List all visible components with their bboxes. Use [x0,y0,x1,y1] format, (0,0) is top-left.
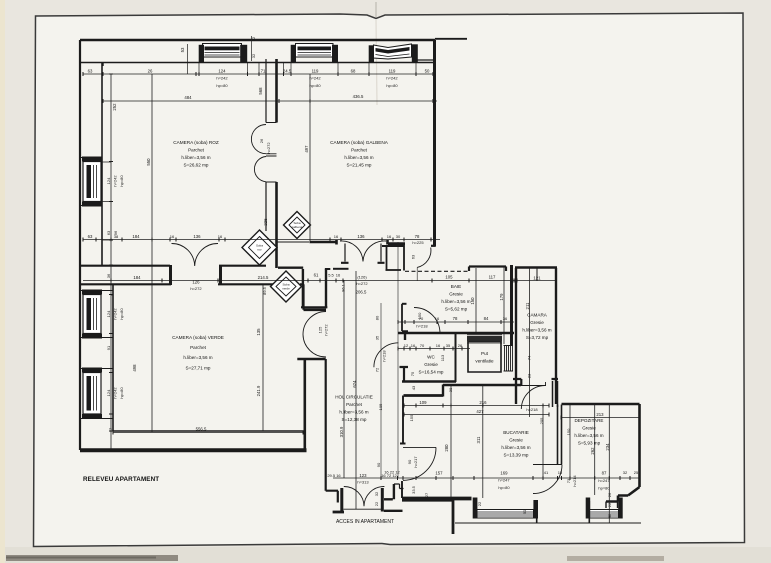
svg-text:Parchet: Parchet [190,345,207,350]
wall step hol arm west [333,268,349,270]
svg-text:S=16,54 mp: S=16,54 mp [419,370,444,375]
svg-text:96.1: 96.1 [341,283,346,292]
vertical extension x111 left [110,74,112,450]
dim line 556.5 y432 [113,432,303,434]
vertical extension x152 [151,74,153,432]
svg-text:436.5: 436.5 [353,94,364,99]
svg-text:h=218: h=218 [526,407,538,412]
svg-text:CAMERA (soba) ROZ: CAMERA (soba) ROZ [173,140,219,145]
svg-text:h=272: h=272 [266,142,271,154]
svg-text:CAMERA (soba) VERDE: CAMERA (soba) VERDE [172,335,224,340]
svg-text:27: 27 [424,492,429,497]
door double GALBENA-HOL [340,241,386,262]
svg-text:h=217: h=217 [413,456,418,468]
svg-text:262: 262 [590,447,595,455]
svg-text:241.9: 241.9 [256,385,261,396]
svg-text:h.liber=3,56 m: h.liber=3,56 m [344,155,373,160]
vertical extension x263 verde [262,285,264,431]
svg-text:26: 26 [458,343,463,348]
door BUCATARIE-DEPOZITARE [533,465,562,494]
svg-text:h=272: h=272 [324,324,329,336]
soba roz diamond [242,230,277,265]
svg-text:35: 35 [446,343,451,348]
shaft hatch between put and camara [504,346,514,372]
svg-text:63: 63 [88,234,93,239]
svg-text:234: 234 [605,443,610,451]
svg-text:5.5: 5.5 [328,273,334,278]
vertical extension x609 [608,404,610,523]
wall left inner face ROZ [101,63,103,266]
svg-text:25: 25 [634,470,639,475]
svg-text:h=242: h=242 [113,175,118,187]
svg-text:S=5,93 mp: S=5,93 mp [578,441,601,446]
window T3 (fold distorted) [369,44,418,63]
svg-text:S=5,62 mp: S=5,62 mp [445,307,468,312]
svg-text:50: 50 [425,69,430,74]
svg-text:h.liber=3,56 m: h.liber=3,56 m [574,433,603,438]
svg-text:16: 16 [170,234,175,239]
svg-text:184: 184 [132,234,140,239]
svg-text:78: 78 [415,234,420,239]
svg-text:h.liber=3,56 m: h.liber=3,56 m [501,445,530,450]
svg-text:30: 30 [448,387,453,392]
svg-text:550: 550 [146,158,151,166]
svg-text:S=26,62 mp: S=26,62 mp [184,163,209,168]
svg-text:124: 124 [106,310,111,317]
wall soba verde niche bottom [301,306,327,308]
dim chain bottom y478 [333,477,640,479]
wall corridor top [402,498,452,501]
svg-text:280: 280 [444,444,449,452]
wall entrance left [333,511,344,514]
svg-text:Put: Put [481,351,489,356]
svg-text:150: 150 [417,312,422,319]
wall top inner face [103,62,433,64]
svg-text:h.liber=3,56 m: h.liber=3,56 m [183,355,212,360]
door CAMARA-BUCATARIE arc [521,382,546,409]
svg-text:105: 105 [445,275,453,280]
svg-text:78: 78 [453,316,458,321]
svg-text:47: 47 [108,427,113,432]
vertical extension x529 camara 211 [529,268,531,417]
svg-text:119: 119 [312,69,319,74]
door HOL-WC arc [374,343,399,368]
svg-text:205: 205 [539,417,544,424]
wall HOL left bottom elbow [326,491,338,503]
wall soba verde niche right [325,269,327,308]
svg-text:ventilatie: ventilatie [475,359,494,364]
vertical extension x381 hol right dims [380,303,382,478]
svg-text:310.9: 310.9 [339,426,344,437]
svg-text:h.liber=3,56 m: h.liber=3,56 m [181,155,210,160]
svg-text:35: 35 [375,335,380,340]
corridor east post walls [606,502,618,509]
put ventilatie label [475,351,494,364]
door jambs VERDE-HOL [297,310,326,359]
svg-text:74: 74 [527,355,532,360]
svg-text:206.5: 206.5 [356,290,367,295]
svg-text:119: 119 [389,69,396,74]
svg-text:211: 211 [525,302,530,309]
svg-text:Parchet: Parchet [188,148,205,153]
svg-text:h.liber=3,56 m: h.liber=3,56 m [522,328,551,333]
svg-text:226: 226 [263,218,268,226]
extension lines left wall windows [102,162,113,414]
wall BAIE north solid raised [469,267,506,272]
svg-text:h=242: h=242 [309,76,321,81]
svg-text:16: 16 [387,234,392,239]
svg-text:h=225: h=225 [412,240,424,245]
room CAMERA VERDE [172,335,224,371]
wall WC south [402,380,456,382]
svg-text:Gresie: Gresie [449,292,463,297]
door BAIE north arc [417,248,431,268]
door jambs GALBENA-HOL posts [337,240,388,245]
tick marks top chain [83,72,640,480]
svg-text:16: 16 [435,316,440,321]
svg-text:hp=80: hp=80 [309,83,321,88]
svg-text:12: 12 [404,343,409,348]
wall soba verde niche cap [325,268,330,270]
room DEPOZITARE [574,418,603,446]
svg-text:hp=80: hp=80 [216,83,228,88]
svg-text:556.5: 556.5 [196,427,207,432]
dim line kitchen y405 [404,405,549,407]
svg-text:h=242: h=242 [113,387,118,399]
svg-text:Parchet: Parchet [351,148,368,153]
svg-text:90: 90 [522,509,527,514]
door double VERDE-HOL [303,312,326,358]
svg-text:RELEVEU APARTAMENT: RELEVEU APARTAMENT [83,476,159,483]
svg-text:verde: verde [282,287,290,291]
svg-text:126: 126 [192,280,200,285]
svg-text:216: 216 [479,400,487,405]
svg-text:h=214: h=214 [572,475,577,487]
svg-text:26: 26 [259,138,264,143]
wall niche right [403,246,405,271]
svg-text:61: 61 [314,273,319,278]
svg-text:26: 26 [148,69,153,74]
svg-text:63: 63 [106,230,111,235]
window T2 [291,44,338,63]
svg-text:Gresie: Gresie [509,438,523,443]
svg-text:117: 117 [489,275,496,280]
svg-text:150: 150 [566,428,571,435]
dim line wc y348 [398,348,470,350]
steps notch right of entrance [394,484,404,489]
svg-text:15: 15 [558,470,563,475]
svg-text:h=247: h=247 [598,478,610,483]
svg-text:WC: WC [427,355,435,360]
svg-text:hp=80: hp=80 [119,175,124,187]
window T1 [199,44,248,63]
svg-text:157: 157 [435,471,443,476]
wall GALBENA bottom [310,241,337,244]
vertical extension x543 kitchen 205 [542,404,544,478]
svg-text:30: 30 [396,234,401,239]
wall soba verde niche left [302,269,304,308]
svg-text:123: 123 [359,473,367,478]
svg-text:136: 136 [193,234,201,239]
svg-text:hp=80: hp=80 [386,83,398,88]
svg-text:(126): (126) [357,275,367,280]
svg-text:87: 87 [602,471,607,476]
wall BAIE north dashed [405,270,469,272]
svg-text:89.5: 89.5 [262,286,267,295]
vertical extension x482 kitchen 311 [482,385,484,498]
svg-text:HOL CIRCULATIE: HOL CIRCULATIE [335,395,373,400]
svg-text:124: 124 [218,69,226,74]
svg-text:BUCATARIE: BUCATARIE [503,430,529,435]
wall soba galbena base [278,267,303,269]
wall kitchen NE column [553,381,558,407]
corridor middle pier [537,501,590,523]
svg-text:155: 155 [409,414,414,421]
room CAMARA [522,313,551,341]
svg-text:ACCES IN APARTAMENT: ACCES IN APARTAMENT [336,519,394,525]
svg-text:70: 70 [420,343,425,348]
svg-text:179: 179 [499,293,504,301]
svg-text:24.5: 24.5 [283,69,292,74]
scanner smudge bottom left [6,555,178,561]
small dim pier T1-T2 [251,36,253,61]
vertical extension x594 [594,404,596,495]
room CAMERA GALBENA [330,140,389,168]
svg-text:32: 32 [374,491,379,496]
svg-text:33.5: 33.5 [411,485,416,494]
wall left inner face VERDE [112,285,114,432]
wall VERDE right inner below door [303,359,306,450]
dim chain y279 [83,280,557,282]
svg-text:484: 484 [184,95,192,100]
svg-text:38: 38 [114,234,119,239]
window L1 [82,157,102,207]
svg-text:hp=80: hp=80 [119,387,124,399]
wall BAIE west [401,304,403,331]
svg-text:213: 213 [596,412,604,417]
wall WC east [455,333,457,382]
svg-text:h=218: h=218 [416,324,428,329]
dim line 484/436.5 y101 [103,100,437,102]
wall VERDE right inner above door [302,284,304,310]
scanner smudge bottom right [567,556,664,561]
svg-text:S=21,45 mp: S=21,45 mp [347,163,372,168]
svg-text:80: 80 [375,315,380,320]
svg-text:h=272: h=272 [356,281,368,286]
wall ROZ/GALBENA door jambs [266,123,277,183]
svg-text:Gresie: Gresie [424,362,438,367]
wall kitchen north low [404,394,444,397]
svg-text:CAMARA: CAMARA [527,313,548,318]
svg-text:23: 23 [527,373,532,378]
svg-text:75: 75 [410,371,415,376]
svg-text:S=13,39 mp: S=13,39 mp [504,453,529,458]
door leaves GALBENA-HOL [345,244,381,262]
wall kitchen/depozitare shared [558,405,562,465]
svg-text:32: 32 [251,53,256,58]
fold mark top [375,2,377,17]
svg-text:16 72 12: 16 72 12 [381,473,397,478]
door leaf caps [341,262,385,264]
svg-text:73: 73 [566,478,571,483]
wall kitchen south [402,497,472,501]
svg-text:68: 68 [351,69,356,74]
wall niche below GALBENA [277,241,309,243]
wall ROZ bottom top-face [81,265,267,267]
svg-text:90: 90 [407,459,412,464]
svg-text:214.5: 214.5 [258,275,269,280]
svg-text:36: 36 [503,316,508,321]
put ventilatie shaft box [468,342,501,373]
wall kitchen west [400,396,406,499]
vertical extension x570 [569,404,571,478]
svg-text:Parchet: Parchet [346,402,363,407]
svg-text:41: 41 [544,470,549,475]
svg-text:84: 84 [484,316,489,321]
wall left exterior [79,40,81,450]
corridor bottom outer line [455,522,641,524]
svg-text:136: 136 [357,234,365,239]
wall bottom exterior VERDE [80,448,307,452]
svg-text:hp=80: hp=80 [598,486,610,491]
dim line kitchen 427 y414 [404,414,549,416]
svg-text:497: 497 [304,145,309,153]
wall BAIE west upper cap [402,303,407,305]
wall step at T3 right jamb [415,52,434,60]
dim line baie y322 [398,321,514,323]
door post galbena right [431,245,436,247]
svg-text:121: 121 [533,276,541,281]
svg-text:29.5 16: 29.5 16 [327,473,341,478]
svg-text:16: 16 [218,234,223,239]
svg-text:CAMERA (soba) GALBENA: CAMERA (soba) GALBENA [330,140,389,145]
svg-text:91: 91 [106,345,111,350]
wall niche bottom [386,269,402,271]
door sill entrance [343,508,382,510]
vertical extension x427 hol right col [397,242,399,478]
svg-text:105: 105 [378,403,383,410]
svg-text:h=242: h=242 [386,76,398,81]
svg-text:16: 16 [411,343,416,348]
wall WC west cap [400,367,409,382]
put ventilatie hatch band [467,336,502,342]
dim chain top y74 [83,73,434,75]
wall CAMARA outline [515,268,557,405]
vertical extension x504 baie 179 [503,266,505,344]
wall stub beyond GALBENA corner [435,38,467,40]
svg-text:16: 16 [336,273,341,278]
wall HOL left face [325,359,327,491]
wall BAIE east [510,265,513,345]
extension below arc [416,267,418,281]
svg-text:169: 169 [500,471,508,476]
svg-text:h.liber=3,56 m: h.liber=3,56 m [441,299,470,304]
dim chain mid y239 [83,239,440,241]
soba verde diamond [271,271,302,302]
wall top-left corner join [80,40,103,66]
svg-text:hp=80: hp=80 [498,485,510,490]
door double entrance [344,486,385,506]
wall BAIE south / WC north [398,332,514,334]
svg-text:624: 624 [352,380,357,388]
svg-text:h=313: h=313 [357,480,369,485]
dim line depozitare 213 y417 [561,417,640,419]
svg-text:S=27,71 mp: S=27,71 mp [186,366,211,371]
svg-text:16: 16 [436,343,441,348]
wall CAMARA south caps [513,379,558,385]
svg-text:Gresie: Gresie [530,320,544,325]
room BAIE [441,284,470,312]
wall ROZ/GALBENA thin face [265,59,267,231]
door ROZ-GALBENA lower [254,157,266,182]
room HOL CIRCULATIE [335,395,373,423]
svg-text:h=272: h=272 [190,286,202,291]
wall niche left [386,246,388,270]
svg-text:135: 135 [256,328,261,336]
wall corridor left vertical [452,500,455,534]
door double ROZ-VERDE [172,243,219,266]
wall DEPOZITARE outline [562,404,640,502]
svg-text:36: 36 [607,513,612,518]
vertical extension x476 baie [475,268,477,332]
svg-text:26: 26 [607,492,612,497]
door jambs entrance posts [342,488,383,512]
door ROZ-GALBENA upper [251,125,266,154]
corridor window band east [586,498,623,519]
extension lines window jambs top [188,44,417,74]
vertical extension x356 hol [355,271,357,509]
svg-text:252: 252 [112,103,117,111]
svg-text:113: 113 [440,354,445,361]
svg-text:125: 125 [318,326,323,333]
door jambs ROZ-VERDE posts [171,265,221,285]
svg-text:S=3,72 mp: S=3,72 mp [526,335,549,340]
svg-text:498: 498 [132,364,137,372]
svg-text:Gresie: Gresie [582,426,596,431]
wall ROZ/GALBENA thick face [275,59,278,268]
door HOL-BUCATARIE leaf and arc [403,447,436,480]
svg-text:h=242: h=242 [113,308,118,320]
wall hol top arm cap [382,245,405,247]
svg-text:22: 22 [477,501,482,506]
window L2 [82,290,102,339]
svg-text:galbena: galbena [292,225,303,229]
svg-text:S=12,38 mp: S=12,38 mp [342,417,367,422]
svg-text:DEPOZITARE: DEPOZITARE [574,418,603,423]
svg-text:16: 16 [334,234,339,239]
wall left sill lines [80,158,113,419]
wall kitchen north step [443,385,521,397]
svg-text:roz: roz [257,248,262,252]
svg-text:BAIE: BAIE [451,284,461,289]
svg-text:hp=80: hp=80 [119,308,124,320]
door HOL-BAIE arc [414,308,440,334]
wall bottom inner VERDE [113,430,304,432]
window L3 [82,368,102,420]
wall GALBENA right [433,40,436,247]
svg-text:72: 72 [375,367,380,372]
hatch band lines [467,335,502,343]
svg-text:h=218: h=218 [382,350,387,362]
svg-text:90: 90 [376,462,381,467]
vertical extension x310 [309,74,311,241]
svg-text:22: 22 [251,36,256,41]
svg-text:h=242: h=242 [216,76,228,81]
wall BAIE west elbow [402,332,408,341]
room CAMERA ROZ [173,140,219,168]
room WC [419,355,444,375]
svg-text:124: 124 [106,389,111,396]
